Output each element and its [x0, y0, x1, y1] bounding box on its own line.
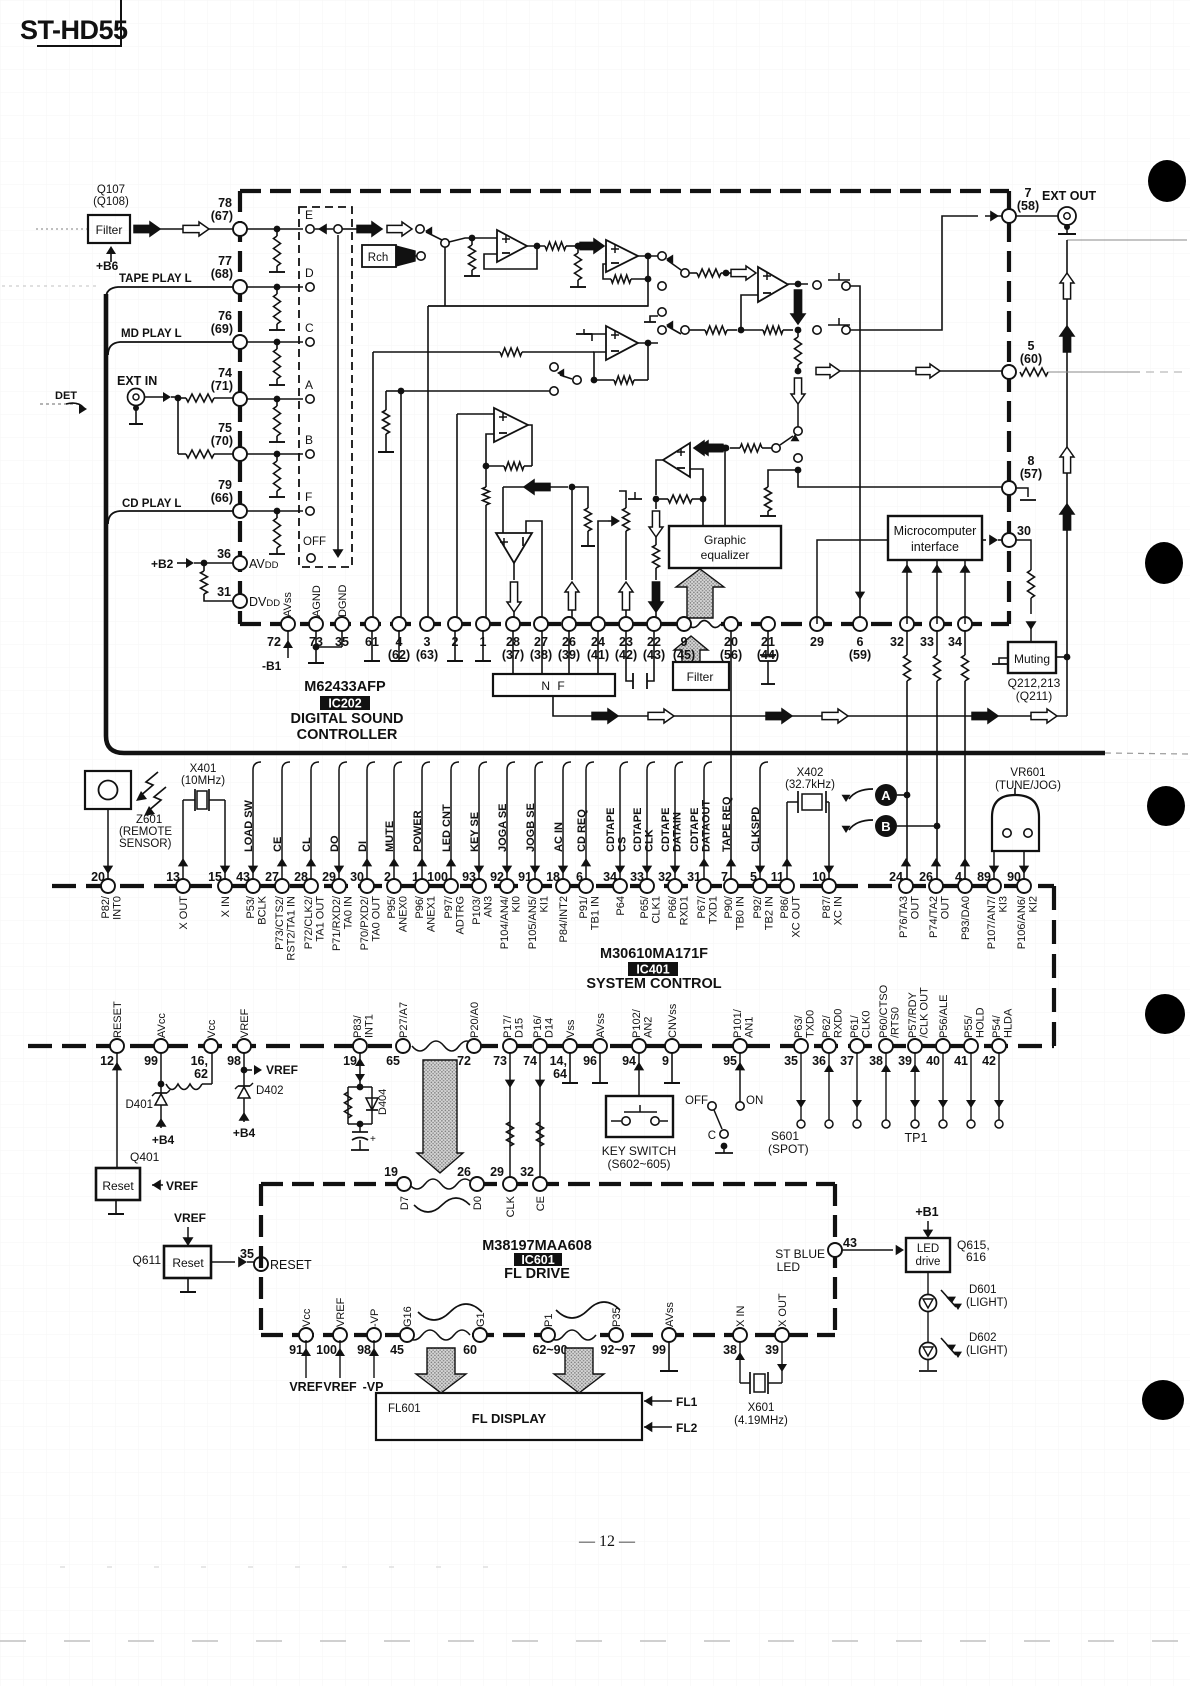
- resistor below row3: [795, 337, 802, 365]
- wire pin26 riser: [571, 487, 573, 580]
- pin 19 D7: [397, 1177, 411, 1191]
- pin 26 IC202: [562, 617, 576, 631]
- pin 3 IC202: [420, 617, 434, 631]
- pin 10 IC401 wire: [824, 866, 834, 874]
- svg-text:X401: X401: [190, 763, 217, 775]
- svg-text:ANEX0: ANEX0: [398, 896, 410, 932]
- pin19 double arrow: [359, 1053, 361, 1087]
- N F box: [493, 674, 615, 696]
- wire to op-amp1: [449, 238, 472, 242]
- pin 43 IC401: [246, 879, 260, 893]
- wire pin4 riser: [400, 391, 402, 624]
- pin 34 IC401 wire: [619, 770, 621, 879]
- svg-text:26: 26: [562, 635, 576, 649]
- AC ground: [276, 436, 278, 442]
- svg-text:19: 19: [384, 1165, 398, 1179]
- svg-text:96: 96: [583, 1054, 597, 1068]
- node: [723, 270, 730, 277]
- pin 15 IC401 wire: [220, 866, 230, 874]
- svg-text:18: 18: [546, 870, 560, 884]
- pin 79 (66): [233, 504, 247, 518]
- svg-text:CD REQ: CD REQ: [576, 809, 588, 852]
- selector contact A: [306, 395, 314, 403]
- svg-text:78: 78: [218, 196, 232, 210]
- svg-text:VREF: VREF: [166, 1179, 198, 1193]
- FL DISPLAY box: [376, 1393, 642, 1440]
- node: [795, 467, 802, 474]
- svg-text:Vcc: Vcc: [301, 1308, 313, 1327]
- svg-text:VREF: VREF: [266, 1063, 298, 1077]
- svg-text:P107/AN7/: P107/AN7/: [986, 895, 998, 949]
- selector contact F: [306, 507, 314, 515]
- pin 24 IC202: [591, 617, 605, 631]
- Filter box Q107: [88, 215, 130, 243]
- arrow solid left row488: [524, 480, 550, 494]
- svg-text:7: 7: [1025, 186, 1032, 200]
- pin 18 IC401 wire: [562, 770, 564, 879]
- pin 4 IC202: [392, 617, 406, 631]
- svg-text:43: 43: [843, 1236, 857, 1250]
- svg-text:CNVss: CNVss: [667, 1003, 679, 1038]
- op-amp U1: [497, 230, 527, 262]
- svg-text:29: 29: [810, 635, 824, 649]
- arrow solid: [357, 222, 382, 236]
- svg-text:LED CNT: LED CNT: [441, 804, 453, 852]
- svg-text:C: C: [708, 1130, 716, 1142]
- IC401 boundary top: [52, 884, 1054, 888]
- svg-text:P67/: P67/: [696, 895, 708, 919]
- pin 13 IC401: [176, 879, 190, 893]
- svg-text:DVDD: DVDD: [249, 595, 280, 609]
- svg-text:31: 31: [217, 585, 231, 599]
- svg-text:P61/: P61/: [849, 1014, 861, 1038]
- svg-text:VR601: VR601: [1010, 767, 1045, 779]
- pin 2 IC401 wire: [393, 770, 395, 879]
- pin 29 IC401: [332, 879, 346, 893]
- pin 1 IC401 wire: [421, 770, 423, 879]
- pin 1 IC202: [476, 617, 490, 631]
- resistor shunt: [274, 349, 281, 379]
- pin 11 IC401: [780, 879, 794, 893]
- wire long y391: [401, 390, 550, 392]
- svg-text:100: 100: [427, 870, 448, 884]
- svg-text:30: 30: [350, 870, 364, 884]
- AC ground: [767, 511, 769, 516]
- pin 19 IC401 lower: [353, 1039, 367, 1053]
- svg-text:13: 13: [166, 870, 180, 884]
- arrow hollow to U3: [731, 266, 756, 280]
- pin 42 IC401 lower: [992, 1039, 1006, 1053]
- svg-text:VREF: VREF: [174, 1211, 206, 1225]
- svg-text:ANEX1: ANEX1: [426, 896, 438, 932]
- pin 43 IC401 wire: [252, 770, 254, 879]
- Z601 remote sensor box: [85, 771, 131, 809]
- svg-text:P62/: P62/: [821, 1014, 833, 1038]
- svg-text:(38): (38): [530, 648, 552, 662]
- svg-text:CD PLAY L: CD PLAY L: [122, 498, 181, 510]
- svg-text:FL2: FL2: [676, 1421, 698, 1435]
- pin 72 IC401 lower: [467, 1039, 481, 1053]
- ground pin96: [599, 1053, 601, 1083]
- wire pin79 to selector: [247, 510, 303, 512]
- svg-text:26: 26: [457, 1165, 471, 1179]
- resistor U4 in: [500, 348, 522, 356]
- svg-text:92: 92: [490, 870, 504, 884]
- svg-text:P101/: P101/: [732, 1008, 744, 1038]
- wire to U6 plus: [502, 487, 504, 533]
- wire to pin6 riser: [850, 286, 860, 624]
- scan artifact line bottom: [0, 1640, 1190, 1642]
- svg-text:76: 76: [218, 309, 232, 323]
- svg-text:VREF: VREF: [239, 1008, 251, 1038]
- pin 26 IC401 wire: [931, 858, 941, 866]
- svg-text:CE: CE: [535, 1196, 547, 1211]
- pin 28 IC202: [506, 617, 520, 631]
- KEY SWITCH box: [606, 1096, 673, 1137]
- svg-text:27: 27: [265, 870, 279, 884]
- pin 90 IC401 wire: [1019, 866, 1029, 874]
- svg-text:VREF: VREF: [323, 1380, 357, 1394]
- pot resistor: [623, 508, 630, 531]
- wire microcomputer pin29: [817, 540, 888, 624]
- svg-text:3: 3: [424, 635, 431, 649]
- svg-text:TA1 OUT: TA1 OUT: [315, 896, 327, 942]
- feedback U3 wire: [741, 295, 758, 330]
- pin 34 IC202: [958, 617, 972, 631]
- svg-text:74: 74: [218, 366, 232, 380]
- pin 6 IC401: [579, 879, 593, 893]
- svg-text:(TUNE/JOG): (TUNE/JOG): [995, 780, 1061, 792]
- svg-text:90: 90: [1007, 870, 1021, 884]
- pin 38 IC601: [733, 1328, 747, 1342]
- arrow hollow: [387, 222, 412, 236]
- resistor shunt op-amp1 input: [469, 245, 476, 270]
- pin 92 IC401: [500, 879, 514, 893]
- svg-text:(69): (69): [211, 322, 233, 336]
- svg-text:93: 93: [462, 870, 476, 884]
- svg-text:CLK: CLK: [505, 1195, 517, 1217]
- svg-text:65: 65: [386, 1054, 400, 1068]
- svg-text:— 12 —: — 12 —: [578, 1533, 636, 1550]
- node: [723, 445, 730, 452]
- svg-text:28: 28: [294, 870, 308, 884]
- svg-text:TA0 IN: TA0 IN: [343, 896, 355, 929]
- wire arrow EXT IN: [145, 396, 163, 398]
- svg-text:DO: DO: [329, 835, 341, 852]
- Rch pennant: [396, 246, 415, 266]
- resistor shunt: [274, 461, 281, 491]
- svg-text:TB0 IN: TB0 IN: [735, 896, 747, 930]
- svg-text:Microcomputer: Microcomputer: [894, 524, 977, 538]
- pin 31 IC401 wire: [703, 770, 705, 879]
- svg-text:38: 38: [869, 1054, 883, 1068]
- wire pin2 riser: [456, 414, 458, 624]
- node: [795, 368, 802, 375]
- svg-text:X IN: X IN: [220, 896, 232, 917]
- svg-text:KI1: KI1: [539, 896, 551, 913]
- AC gnd pot top: [619, 491, 626, 508]
- op-amp U7 left: [663, 443, 690, 477]
- feedback U2: [647, 256, 649, 279]
- pin 29 IC202: [810, 617, 824, 631]
- ground pin14-64: [569, 1053, 571, 1083]
- resistor to pin 74: [186, 394, 214, 402]
- svg-text:21: 21: [761, 635, 775, 649]
- svg-text:35: 35: [240, 1247, 254, 1261]
- ground pin4: [398, 631, 400, 661]
- svg-text:CDTAPE: CDTAPE: [689, 808, 701, 852]
- svg-text:98: 98: [357, 1343, 371, 1357]
- registration dot 2: [1145, 542, 1183, 584]
- wire pin34 drop resistor: [964, 631, 966, 655]
- arrow into pin 7: [990, 211, 999, 222]
- pin 32 IC401: [668, 879, 682, 893]
- wire: [940, 370, 1002, 372]
- svg-text:JOGB SE: JOGB SE: [525, 803, 537, 852]
- svg-text:G16: G16: [402, 1306, 414, 1327]
- svg-text:CDTAPE: CDTAPE: [605, 808, 617, 852]
- svg-text:P83/: P83/: [352, 1014, 364, 1038]
- wire pin76 to selector: [247, 341, 303, 343]
- svg-text:KEY SE: KEY SE: [469, 812, 481, 852]
- pin 7 IC401: [724, 879, 738, 893]
- svg-text:45: 45: [390, 1343, 404, 1357]
- switch contact: [794, 427, 802, 435]
- pin 91 IC401: [528, 879, 542, 893]
- pin 93 IC401: [472, 879, 486, 893]
- svg-text:62: 62: [194, 1067, 208, 1081]
- svg-text:(37): (37): [502, 648, 524, 662]
- FL1 arrow: [644, 1396, 652, 1406]
- pin 16,:62 IC401 lower: [204, 1039, 218, 1053]
- svg-text:35: 35: [784, 1054, 798, 1068]
- pin 35 RESET IC601: [254, 1257, 268, 1271]
- registration dot 5: [1142, 1380, 1184, 1420]
- pin 34 IC401: [613, 879, 627, 893]
- svg-text:TXD0: TXD0: [805, 1010, 817, 1038]
- svg-text:RXD1: RXD1: [679, 896, 691, 925]
- svg-text:41: 41: [954, 1054, 968, 1068]
- svg-text:Graphic: Graphic: [704, 533, 746, 547]
- svg-text:TA0 OUT: TA0 OUT: [371, 896, 383, 942]
- wire: [584, 333, 606, 335]
- svg-text:Z601: Z601: [136, 814, 162, 826]
- node: [398, 388, 405, 395]
- pin 33 IC202: [930, 617, 944, 631]
- svg-text:11: 11: [771, 870, 784, 884]
- pin 45 IC601: [400, 1328, 414, 1342]
- svg-text:P93/DA0: P93/DA0: [960, 896, 972, 940]
- wire pin3 riser: [427, 306, 429, 624]
- ground D602: [927, 1359, 929, 1370]
- svg-text:89: 89: [977, 870, 991, 884]
- svg-text:43: 43: [236, 870, 250, 884]
- svg-text:98: 98: [227, 1054, 241, 1068]
- wire pin74 to selector: [247, 398, 303, 400]
- arrow to pot: [611, 516, 620, 527]
- feedback U7: [656, 460, 663, 495]
- pin 30 IC401: [360, 879, 374, 893]
- wire pin24 riser: [598, 521, 608, 624]
- node U3 out: [795, 281, 802, 288]
- EXT IN jack: [128, 389, 145, 406]
- svg-text:74: 74: [523, 1054, 537, 1068]
- svg-text:P17/: P17/: [502, 1014, 514, 1038]
- pin 5 IC401 wire: [759, 770, 761, 879]
- svg-text:P91/: P91/: [578, 895, 590, 919]
- D404 RC network: [357, 1084, 364, 1091]
- svg-text:AVDD: AVDD: [249, 557, 279, 571]
- svg-text:IC601: IC601: [521, 1253, 554, 1267]
- svg-text:KI2: KI2: [1028, 896, 1040, 913]
- pin 27 IC202: [534, 617, 548, 631]
- svg-text:AC IN: AC IN: [553, 822, 565, 852]
- svg-text:38: 38: [723, 1343, 737, 1357]
- switch wiper row3: [667, 326, 681, 334]
- svg-text:P105/AN5/: P105/AN5/: [527, 895, 539, 949]
- pin 39 IC401 lower: [908, 1039, 922, 1053]
- wire pin61 riser: [372, 352, 374, 624]
- resistor shunt: [274, 236, 281, 266]
- svg-text:ON: ON: [746, 1095, 763, 1107]
- wire pin20 drop to IC401: [730, 631, 732, 879]
- svg-text:32: 32: [890, 635, 904, 649]
- svg-text:JOGA SE: JOGA SE: [497, 804, 509, 853]
- svg-text:ST-HD55: ST-HD55: [20, 15, 128, 45]
- wire U4 out: [638, 342, 658, 344]
- wire: [457, 413, 494, 415]
- svg-text:AN1: AN1: [744, 1017, 756, 1038]
- svg-text:MD PLAY L: MD PLAY L: [121, 328, 182, 340]
- svg-text:24: 24: [889, 870, 903, 884]
- svg-text:LOAD SW: LOAD SW: [243, 799, 255, 852]
- pin 41 IC401 lower: [964, 1039, 978, 1053]
- svg-text:26: 26: [919, 870, 933, 884]
- pin 6 IC401 wire: [585, 770, 587, 879]
- svg-text:CONTROLLER: CONTROLLER: [297, 727, 398, 743]
- ground muting: [999, 658, 1008, 664]
- svg-text:42: 42: [982, 1054, 996, 1068]
- ground pin1: [482, 631, 484, 661]
- svg-text:RESET: RESET: [270, 1258, 312, 1272]
- svg-text:D602: D602: [969, 1332, 997, 1344]
- arrow solid up b: [1060, 326, 1074, 352]
- pin 36 AVDD: [233, 556, 247, 570]
- svg-text:FL601: FL601: [388, 1403, 421, 1415]
- svg-text:(REMOTE: (REMOTE: [119, 826, 172, 838]
- svg-text:LED: LED: [917, 1243, 939, 1255]
- resistor to U3: [689, 272, 697, 274]
- svg-text:(42): (42): [615, 648, 637, 662]
- light arrows D602: [941, 1338, 950, 1348]
- svg-text:62~90: 62~90: [532, 1343, 567, 1357]
- svg-text:F: F: [305, 490, 312, 504]
- svg-text:/CLK OUT: /CLK OUT: [919, 987, 931, 1038]
- svg-text:ST BLUE: ST BLUE: [775, 1247, 825, 1261]
- pin 95 IC401 lower: [733, 1039, 747, 1053]
- svg-text:4: 4: [955, 870, 962, 884]
- arrow hollow line716 b: [648, 709, 674, 723]
- ground pin2: [454, 631, 456, 661]
- pin 40 IC401 lower: [936, 1039, 950, 1053]
- resistor 2: [741, 329, 763, 331]
- arrow hollow right: [816, 364, 840, 378]
- svg-text:POWER: POWER: [412, 810, 424, 852]
- arrow solid into pin 78: [134, 222, 160, 236]
- svg-text:CLK0: CLK0: [861, 1010, 873, 1038]
- wire pin43 to LED drive: [842, 1249, 893, 1251]
- wire to pin 8: [798, 470, 1002, 487]
- svg-text:9: 9: [662, 1054, 669, 1068]
- arrow up micro c: [964, 560, 966, 624]
- svg-text:P96/: P96/: [414, 895, 426, 919]
- wire A: [897, 794, 907, 796]
- arrow hollow line716 f: [1031, 709, 1057, 723]
- svg-text:AVss: AVss: [664, 1302, 676, 1327]
- Rch contact: [417, 252, 425, 260]
- selector contact B: [306, 450, 314, 458]
- wire pin78 to selector: [247, 228, 303, 230]
- svg-text:Vcc: Vcc: [206, 1019, 218, 1038]
- hatched arrow GE up: [676, 569, 724, 618]
- big hatched arrow data bus: [417, 1060, 463, 1173]
- arrow hollow line716 d: [822, 709, 848, 723]
- ground: [577, 280, 579, 287]
- pin 6 IC202: [853, 617, 867, 631]
- pin 91 IC401 wire: [534, 770, 536, 879]
- arrow up micro a: [906, 560, 908, 624]
- capacitor pins23-22: [626, 631, 633, 681]
- squiggle P1-P35: [556, 1302, 620, 1318]
- svg-text:A: A: [881, 788, 891, 803]
- svg-text:616: 616: [966, 1250, 986, 1264]
- pin 14,:64 IC401 lower: [563, 1039, 577, 1053]
- svg-text:P53/: P53/: [245, 895, 257, 919]
- wire U7 riser to GE box: [724, 448, 726, 526]
- svg-text:91: 91: [289, 1343, 303, 1357]
- wire pin32 drop resistor: [906, 631, 908, 655]
- switch contact: [416, 225, 424, 233]
- gray wire right pin5: [1048, 371, 1140, 373]
- node: [569, 484, 576, 491]
- svg-text:73: 73: [493, 1054, 507, 1068]
- op-amp U3: [758, 267, 788, 302]
- crystal X601: [739, 1342, 741, 1383]
- svg-text:ADTRG: ADTRG: [455, 896, 467, 935]
- pin 13 IC401 wire: [178, 858, 188, 866]
- svg-text:23: 23: [619, 635, 633, 649]
- pin 31 IC401: [697, 879, 711, 893]
- node: [645, 253, 652, 260]
- wire U6 minus loop: [526, 521, 542, 624]
- svg-text:AVss: AVss: [595, 1013, 607, 1038]
- svg-text:34: 34: [948, 635, 962, 649]
- svg-text:2: 2: [384, 870, 391, 884]
- wire pin26 drop: [568, 631, 570, 674]
- svg-text:(63): (63): [416, 648, 438, 662]
- svg-text:20: 20: [724, 635, 738, 649]
- arrow hollow up c: [1060, 447, 1074, 473]
- pin 7 IC401 wire: [726, 858, 736, 866]
- gray line top right: [1067, 239, 1187, 241]
- pin 39 IC601: [775, 1328, 789, 1342]
- pin 32 IC202: [900, 617, 914, 631]
- arrow solid to U2: [580, 239, 604, 253]
- wire MD PLAY L join: [108, 342, 233, 355]
- svg-text:D: D: [305, 266, 314, 280]
- pin 98 IC601: [367, 1328, 381, 1342]
- svg-text:CDTAPE: CDTAPE: [660, 808, 672, 852]
